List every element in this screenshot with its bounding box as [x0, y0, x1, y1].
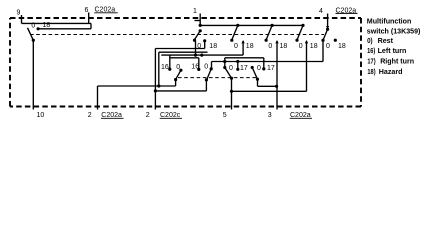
wire R4 up to S5-0: [322, 42, 324, 62]
svg-text:2: 2: [88, 112, 92, 119]
svg-text:Multifunction: Multifunction: [367, 18, 412, 26]
rail R1 (S1-18 to VA): [155, 48, 204, 50]
svg-text:9: 9: [17, 10, 21, 17]
svg-text:0: 0: [257, 65, 261, 72]
switch S1 (0/18): [193, 24, 206, 55]
svg-text:Left turn: Left turn: [378, 47, 407, 55]
node C-17 feed on R4: [236, 60, 239, 63]
wire SC common down to pin 5: [231, 78, 233, 109]
svg-text:0: 0: [31, 22, 35, 29]
node VA junction: [154, 89, 157, 92]
rail right (SC common to S4-18): [232, 90, 307, 92]
wire D-17 feed: [263, 58, 265, 69]
svg-text:1: 1: [193, 8, 197, 15]
svg-text:0: 0: [326, 43, 330, 50]
wire down to pin 2 C202a: [97, 86, 99, 110]
switch S3 (0/18): [265, 24, 279, 110]
svg-text:18: 18: [43, 22, 51, 29]
wire hazard common down to pin 10: [32, 40, 34, 109]
switch S2 (0/18): [230, 24, 245, 55]
node on R3: [200, 54, 203, 57]
svg-text:18): 18): [367, 68, 376, 76]
wire S4-18 down to rail: [306, 41, 308, 91]
hazard switch 18 terminal dot: [37, 27, 40, 30]
rail R2 (S1-0 / S2-18 / SA-16): [159, 51, 208, 53]
pin 6 stub: [88, 13, 90, 24]
svg-text:16): 16): [367, 47, 376, 55]
pin 9 stub: [21, 15, 23, 23]
switch S4 (0/18): [295, 24, 308, 92]
wire C-0 feed: [224, 58, 226, 68]
node S1-0 on R3: [194, 54, 197, 57]
wire VA down to pin 2 C202c: [154, 91, 156, 110]
svg-text:17: 17: [267, 65, 275, 72]
svg-text:18: 18: [338, 43, 346, 50]
svg-text:0: 0: [299, 43, 303, 50]
wire pin1 label tie: [195, 20, 201, 22]
pin 4 arrowhead: [326, 26, 329, 29]
svg-text:0: 0: [234, 43, 238, 50]
wire pin9 to pin6: [22, 22, 92, 24]
pin 1 stub: [199, 14, 201, 26]
top bank bus wire: [200, 24, 303, 26]
svg-text:0: 0: [176, 64, 180, 71]
svg-text:16: 16: [161, 64, 169, 71]
svg-text:18: 18: [280, 43, 288, 50]
svg-text:17): 17): [367, 58, 376, 66]
rail left common (SA to pin 2): [98, 85, 176, 87]
rail R4 (0-rest common): [212, 61, 324, 63]
wire back to hazard 18 terminal: [38, 28, 91, 30]
svg-text:Rest: Rest: [378, 37, 394, 45]
svg-text:18: 18: [209, 43, 217, 50]
svg-text:0: 0: [229, 65, 233, 72]
wire VA vertical: [154, 49, 156, 91]
hazard switch common dot: [32, 39, 35, 42]
switch S5 (0/18): [321, 28, 337, 42]
svg-text:0): 0): [367, 37, 373, 45]
svg-text:switch (13K359): switch (13K359): [367, 27, 421, 35]
svg-text:Right turn: Right turn: [380, 58, 414, 66]
svg-text:2: 2: [146, 112, 150, 119]
svg-text:16: 16: [191, 64, 199, 71]
rail R3a to SB-16: [170, 57, 199, 59]
node VB on rail: [157, 84, 160, 87]
svg-text:17: 17: [240, 65, 248, 72]
svg-text:Hazard: Hazard: [379, 68, 403, 76]
legend multifunction switch 13K359: [367, 18, 421, 76]
svg-text:0: 0: [197, 43, 201, 50]
rail left turn (SB common to VA): [155, 90, 206, 92]
switch housing dashed border: [10, 18, 361, 107]
wire corner down: [90, 23, 92, 28]
mechanical link dashed line (hazard + top bank): [30, 34, 324, 36]
switch SC (0/17): [223, 66, 239, 110]
svg-text:0: 0: [204, 64, 208, 71]
svg-text:5: 5: [223, 112, 227, 119]
svg-text:0: 0: [268, 43, 272, 50]
node SC common rail junction: [230, 90, 233, 93]
svg-text:4: 4: [319, 8, 323, 15]
wire SA-16 feed: [169, 55, 171, 69]
wire SB-16 feed: [198, 58, 200, 70]
wire C-17 feed: [237, 62, 239, 70]
node C-0 drop on R4: [223, 60, 226, 63]
wire VB vertical: [158, 52, 160, 86]
svg-text:6: 6: [85, 7, 89, 14]
switch SA (16/0): [168, 68, 182, 86]
svg-text:18: 18: [310, 43, 318, 50]
svg-text:3: 3: [268, 112, 272, 119]
wire S3-18 down to pin 3: [276, 41, 278, 110]
rail R3b (C-0 to D-17): [225, 57, 264, 59]
svg-text:10: 10: [37, 112, 45, 119]
rail R3: [161, 54, 243, 56]
mechanical link dashed line (middle row): [178, 77, 256, 79]
node pin3 net junction: [275, 85, 278, 88]
pin 4 stub: [327, 14, 329, 30]
hazard switch blade: [28, 28, 34, 40]
switch SD (0/17): [251, 66, 277, 86]
svg-text:18: 18: [246, 43, 254, 50]
switch SB (16/0): [197, 62, 213, 91]
